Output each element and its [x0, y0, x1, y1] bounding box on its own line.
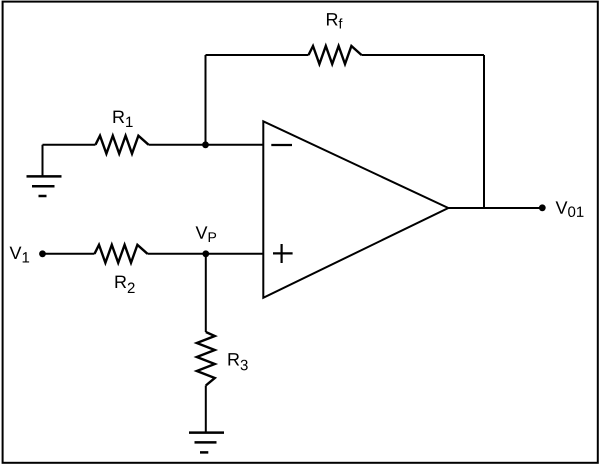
node VP [196, 226, 217, 257]
node junction (inverting input) [202, 141, 209, 148]
wire [483, 55, 485, 208]
wire [205, 386, 207, 432]
ground [27, 145, 62, 196]
wire [43, 144, 96, 146]
op-amp U1 [263, 121, 448, 297]
resistor R2 [95, 245, 148, 293]
wire [362, 54, 485, 56]
node V01 [539, 201, 584, 217]
wire [205, 254, 207, 332]
resistor R3 [197, 332, 248, 386]
wire [43, 253, 95, 255]
wire [205, 55, 207, 145]
resistor Rf [309, 13, 362, 64]
node V1 [10, 247, 46, 263]
wire [206, 54, 309, 56]
ground [189, 433, 224, 453]
wire [448, 207, 542, 209]
resistor R1 [96, 111, 149, 154]
wire [149, 144, 264, 146]
wire [148, 253, 264, 255]
